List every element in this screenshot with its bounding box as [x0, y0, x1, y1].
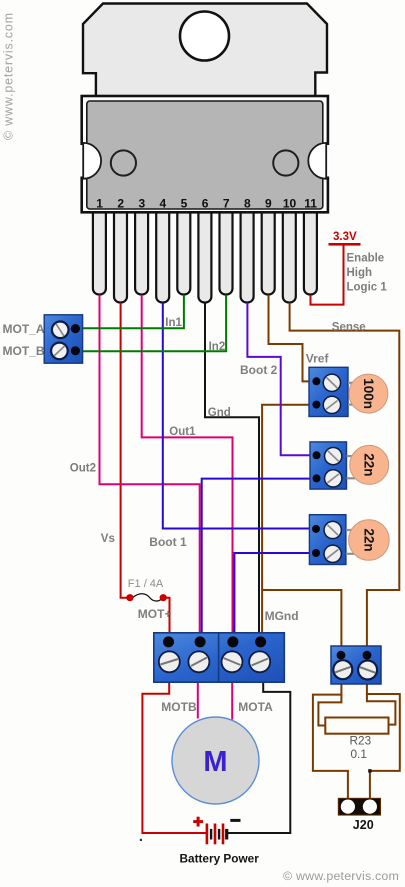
wire 3.3V to pin11 (enable)	[311, 245, 344, 305]
wire battery positive (red)	[142, 680, 206, 833]
terminal block MOT_A/MOT_B	[44, 315, 82, 363]
svg-text:Out1: Out1	[169, 426, 196, 438]
svg-text:100n: 100n	[361, 378, 376, 409]
svg-text:Logic 1: Logic 1	[347, 281, 388, 293]
fuse F1	[126, 594, 166, 602]
svg-text:10: 10	[283, 197, 297, 211]
terminal hole pos4	[255, 636, 266, 647]
wire Boot 2 (pin8 purple to cap block 2 upper)	[247, 303, 313, 456]
svg-text:Vs: Vs	[101, 533, 115, 545]
wire R23 loop right outer (to J20 pin 2)	[367, 682, 400, 800]
svg-text:22n: 22n	[362, 453, 377, 476]
wire R23 loop left outer (to J20 pin 1)	[313, 682, 348, 800]
svg-text:5: 5	[181, 197, 188, 211]
wire R23 left inner (to resistor left lead)	[318, 695, 341, 726]
svg-text:J20: J20	[353, 818, 374, 832]
junction dot near J20 right wire	[368, 769, 371, 772]
cap block3 hole lower	[312, 549, 320, 557]
svg-text:9: 9	[265, 197, 272, 211]
terminal hole pos1	[163, 636, 174, 647]
body hole left	[111, 150, 136, 175]
svg-text:MOT_A: MOT_A	[3, 322, 45, 336]
svg-text:MOTB: MOTB	[161, 700, 197, 714]
battery cells	[206, 824, 229, 845]
svg-text:3.3V: 3.3V	[333, 231, 357, 243]
MOT_B screw	[50, 342, 69, 361]
terminal screw pos2	[188, 650, 211, 673]
sense terminal block (R23)	[331, 646, 381, 684]
pin 11	[304, 206, 317, 295]
IC body	[82, 96, 328, 212]
stray dot	[140, 839, 142, 841]
cap block2 hole lower	[313, 474, 321, 482]
svg-text:6: 6	[202, 197, 209, 211]
pin 6	[198, 206, 211, 303]
cap block2 hole upper	[313, 451, 321, 459]
pin 3	[135, 206, 148, 295]
bottom motor terminal block	[154, 633, 284, 682]
pin 10	[283, 206, 296, 303]
svg-text:0.1: 0.1	[351, 747, 367, 761]
tab mounting hole	[180, 12, 229, 61]
pin 8	[241, 206, 254, 303]
body notch left	[83, 143, 101, 179]
svg-text:© www.petervis.com: © www.petervis.com	[2, 12, 16, 140]
svg-text:MOT_B: MOT_B	[3, 344, 45, 358]
svg-text:4: 4	[160, 197, 167, 211]
svg-text:Gnd: Gnd	[208, 407, 231, 419]
pin 4	[156, 206, 169, 303]
pin 1	[93, 206, 106, 295]
svg-text:Sense: Sense	[332, 322, 366, 334]
svg-text:F1 / 4A: F1 / 4A	[128, 578, 164, 590]
terminal screw pos4	[248, 650, 271, 673]
svg-text:8: 8	[244, 197, 251, 211]
label Enable High Logic 1	[347, 253, 388, 294]
wire In1 (pin5 green to MOT_A)	[78, 295, 184, 328]
svg-text:M: M	[203, 746, 227, 778]
wire battery negative (black)	[228, 680, 291, 833]
svg-text:Out2: Out2	[70, 462, 96, 474]
R23 block screw right	[357, 659, 378, 680]
R23 block screw left	[332, 659, 353, 680]
wire MGnd branch to R23 block left (brown)	[262, 590, 341, 650]
MOT_A wire hole	[71, 324, 80, 333]
capacitor C3 22n	[349, 520, 390, 561]
wire MOTA terminal to motor (magenta)	[231, 680, 233, 720]
svg-text:2: 2	[117, 197, 124, 211]
capacitor C3 leads	[346, 530, 354, 554]
svg-text:In2: In2	[209, 341, 226, 353]
svg-text:1: 1	[96, 197, 103, 211]
body hole right	[273, 150, 298, 175]
svg-text:In1: In1	[165, 317, 182, 329]
wire Out1 (pin3 magenta to MOTA terminal)	[142, 295, 233, 640]
svg-text:Vref: Vref	[306, 352, 330, 366]
pin 7	[220, 206, 233, 295]
cap block2 screw lower	[324, 469, 343, 488]
wire cap block 3 lower to MOTA terminal (blue)	[234, 553, 313, 640]
wire cap block 2 lower to MOTB terminal (blue)	[202, 479, 313, 640]
cap terminal block 1 (Vref)	[309, 367, 348, 416]
wire Out2 (pin1 magenta to MOTB terminal)	[100, 295, 200, 640]
cap block3 screw upper	[323, 521, 342, 540]
body notch border gap left	[80, 145, 84, 177]
cap block2 screw upper	[324, 447, 343, 466]
capacitor C2 22n	[350, 445, 389, 484]
svg-text:R23: R23	[350, 734, 372, 748]
capacitor C2 leads	[347, 456, 356, 478]
svg-text:22n: 22n	[361, 528, 376, 551]
cap block1 screw upper	[323, 373, 342, 392]
svg-text:Battery Power: Battery Power	[180, 851, 260, 865]
wire Boot 1 (pin4 blue to cap block 3 upper)	[163, 303, 313, 529]
cap block3 screw lower	[323, 544, 342, 563]
svg-text:MOT+: MOT+	[138, 607, 172, 621]
svg-text:Boot 2: Boot 2	[240, 363, 278, 377]
R23 block hole right	[363, 651, 372, 660]
motor M1	[172, 717, 259, 804]
wire In2 (pin7 green to MOT_B)	[78, 295, 227, 352]
battery plus sign	[193, 817, 203, 827]
terminal screw pos1	[158, 650, 181, 673]
body notch border gap right	[326, 145, 330, 177]
cap terminal block 2	[310, 442, 347, 489]
capacitor C1 leads	[348, 383, 355, 405]
IC package tab	[83, 4, 327, 99]
pin 5	[177, 206, 190, 295]
capacitor C1 100n	[349, 374, 388, 413]
wire MGnd (cap block 1 lower to bottom terminal, brown)	[262, 405, 313, 640]
wire R23 right inner (to resistor right lead)	[367, 694, 396, 725]
MOT_A screw	[51, 320, 70, 339]
terminal hole pos2	[195, 636, 206, 647]
svg-text:© www.petervis.com: © www.petervis.com	[283, 869, 399, 883]
svg-text:Enable: Enable	[347, 253, 385, 265]
svg-text:MOTA: MOTA	[238, 700, 273, 714]
header J20	[338, 798, 380, 815]
cap block1 hole upper	[312, 377, 320, 385]
pin 9	[262, 206, 275, 295]
svg-text:MGnd: MGnd	[265, 609, 299, 623]
svg-text:7: 7	[223, 197, 230, 211]
battery minus sign	[230, 819, 240, 822]
cap block1 hole lower	[312, 401, 320, 409]
resistor R23	[325, 718, 388, 734]
terminal hole pos3	[227, 636, 238, 647]
wire Gnd (pin6 black)	[205, 303, 259, 640]
wire fuse to MOT+ terminal	[166, 598, 169, 636]
R23 block hole left	[337, 651, 346, 660]
cap block3 hole upper	[312, 525, 320, 533]
body notch right	[308, 143, 326, 179]
wire Vs (pin2 red down to fuse)	[121, 303, 127, 598]
cap block1 screw lower	[323, 396, 342, 415]
svg-text:Boot 1: Boot 1	[149, 535, 187, 549]
wire Vref (pin9 brown to cap block 1 upper)	[269, 295, 314, 382]
3.3V supply rail bar	[329, 243, 361, 246]
MOT_B wire hole	[71, 346, 80, 355]
pin 2	[114, 206, 127, 303]
terminal screw pos3	[221, 650, 244, 673]
svg-text:High: High	[347, 267, 373, 279]
pin numbers 1-11	[96, 197, 317, 211]
svg-text:3: 3	[138, 197, 145, 211]
wire MOTB terminal to motor (magenta)	[197, 680, 199, 719]
svg-text:11: 11	[304, 197, 317, 211]
wire Sense (pin10 brown to R23 block right)	[290, 303, 400, 650]
cap terminal block 3	[309, 515, 346, 565]
